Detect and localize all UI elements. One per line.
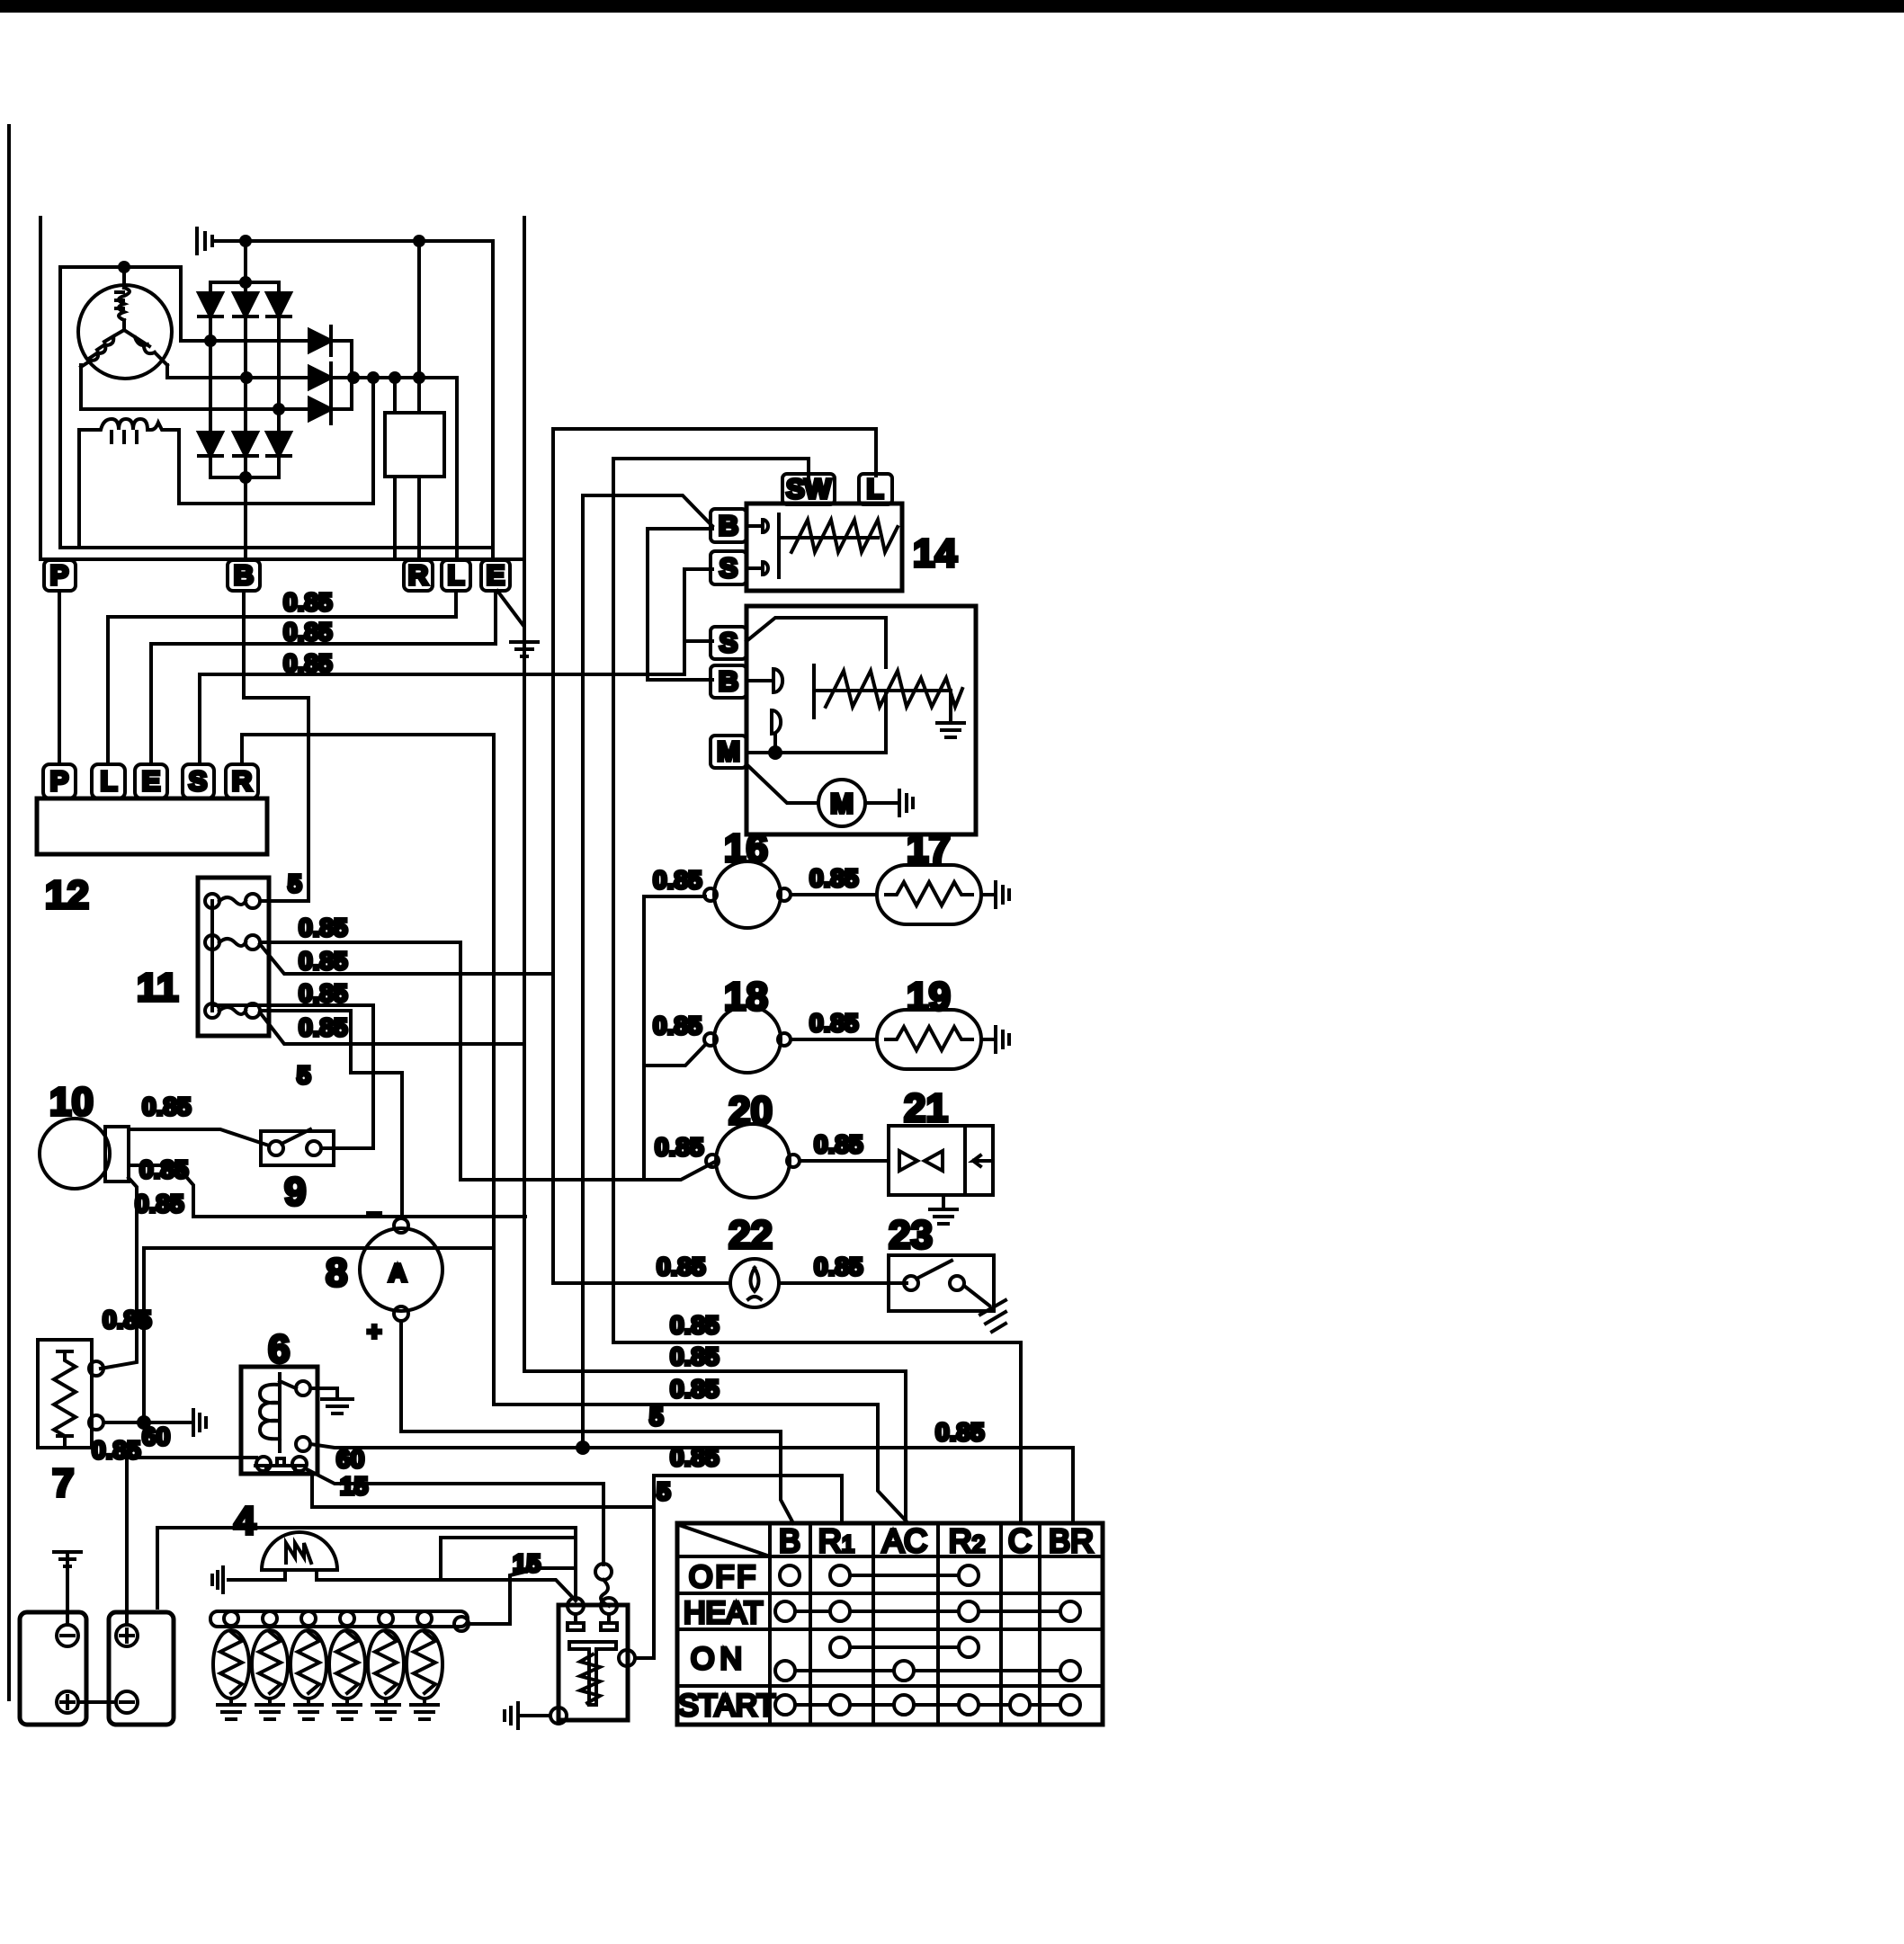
lower diode bus bbox=[210, 472, 279, 477]
wire 18 to 19 bbox=[791, 1038, 877, 1041]
node dot stator top bbox=[118, 261, 130, 273]
wire ammeter plus to key switch B bbox=[401, 1321, 793, 1523]
switch 11 left bus bbox=[210, 901, 214, 1011]
wire 0.85 bus to switch 9 bbox=[213, 1005, 373, 1146]
component 7 box bbox=[38, 1340, 92, 1448]
svg-text:M: M bbox=[830, 788, 854, 819]
switch 11 row2 contacts bbox=[205, 935, 219, 950]
node dot trio junction a bbox=[347, 371, 360, 384]
wire 15 bus to key switch bbox=[157, 1528, 576, 1608]
node dot ground-regulator link bbox=[413, 235, 425, 247]
table header diagonal bbox=[679, 1525, 770, 1556]
wire 0.85 S of 12 to starter S bbox=[200, 641, 684, 764]
glow plug 2 bbox=[263, 1611, 277, 1626]
wire B output bbox=[244, 477, 247, 559]
gauge 18 bbox=[714, 1006, 781, 1073]
svg-text:0.85: 0.85 bbox=[299, 947, 348, 975]
7 contacts bbox=[89, 1361, 103, 1376]
switch 23 contacts bbox=[904, 1276, 918, 1290]
wire 16 to 17 bbox=[791, 893, 877, 896]
lamp 22 bbox=[730, 1259, 779, 1307]
svg-text:8: 8 bbox=[326, 1251, 347, 1295]
svg-text:+: + bbox=[367, 1317, 381, 1345]
svg-text:11: 11 bbox=[137, 966, 179, 1010]
terminal L of alternator bbox=[442, 560, 470, 591]
horn 10 bbox=[40, 1119, 110, 1189]
svg-text:17: 17 bbox=[907, 826, 951, 870]
battery 1 plus terminal bbox=[57, 1691, 78, 1713]
svg-text:B: B bbox=[234, 559, 254, 591]
svg-text:B: B bbox=[779, 1522, 800, 1559]
switch block 11 box bbox=[198, 878, 269, 1036]
key switch spring bbox=[580, 1654, 600, 1703]
svg-text:15: 15 bbox=[340, 1472, 368, 1500]
wire switch 9 to bus bbox=[321, 1146, 373, 1150]
svg-text:START: START bbox=[678, 1689, 775, 1723]
wire regulator out to R bbox=[395, 477, 419, 559]
svg-text:0.85: 0.85 bbox=[657, 1253, 706, 1280]
svg-text:0.85: 0.85 bbox=[655, 1133, 704, 1161]
relay 6 armature T bbox=[255, 1458, 306, 1473]
upper diode bus bbox=[210, 282, 279, 288]
svg-text:SW: SW bbox=[786, 473, 832, 504]
L terminal of 14 bbox=[859, 474, 892, 504]
wire to ground bbox=[518, 1714, 550, 1717]
ground (E terminal) bbox=[511, 642, 538, 656]
wire chain to 16 bbox=[644, 895, 705, 898]
pin L of connector 12 bbox=[92, 764, 125, 798]
svg-text:0.85: 0.85 bbox=[283, 618, 333, 646]
ammeter 8 bbox=[360, 1228, 442, 1311]
node dot trio junction c bbox=[389, 371, 401, 384]
wire key to R1 column bbox=[654, 1476, 842, 1523]
svg-text:9: 9 bbox=[284, 1170, 306, 1214]
B terminal of 15 bbox=[711, 665, 746, 698]
svg-text:P: P bbox=[50, 559, 69, 591]
battery 2 plus terminal bbox=[116, 1625, 138, 1646]
node dot upper bus bbox=[239, 276, 252, 289]
wire ground bus y=268 bbox=[214, 239, 493, 243]
diode D5 bbox=[244, 378, 247, 477]
key switch ground contact bbox=[550, 1708, 567, 1724]
svg-text:0.85: 0.85 bbox=[809, 1009, 859, 1037]
svg-text:20: 20 bbox=[729, 1089, 773, 1133]
wire mid node bus bbox=[331, 376, 457, 379]
pin E of connector 12 bbox=[135, 764, 167, 798]
svg-text:0.85: 0.85 bbox=[103, 1306, 152, 1333]
node dot phase A / bridge column 1 bbox=[204, 334, 217, 347]
stator winding top phase bbox=[116, 267, 130, 330]
trunk wire L14 to lamp 22 bbox=[551, 429, 555, 1283]
svg-text:OFF: OFF bbox=[689, 1560, 758, 1594]
wire 0.85 E to pin E of 12 bbox=[151, 591, 496, 764]
battery 2 minus terminal bbox=[116, 1691, 138, 1713]
ammeter terminals bbox=[394, 1218, 408, 1233]
S terminal of 14 bbox=[711, 551, 746, 584]
diode D8 output (right) phase B bbox=[309, 367, 331, 388]
svg-text:S: S bbox=[189, 765, 208, 797]
svg-text:16: 16 bbox=[724, 826, 768, 870]
svg-text:0.85: 0.85 bbox=[299, 979, 348, 1007]
svg-text:E: E bbox=[142, 765, 161, 797]
key switch contact right bbox=[601, 1598, 617, 1614]
relay 21 box bbox=[889, 1126, 993, 1195]
svg-text:A: A bbox=[389, 1259, 407, 1287]
wire 0.85 horn to trunk bbox=[129, 1165, 525, 1217]
switch 9 box bbox=[261, 1131, 334, 1165]
ground (relay 6) bbox=[322, 1399, 353, 1413]
resistor 19 bbox=[877, 1010, 981, 1069]
svg-text:5: 5 bbox=[288, 869, 302, 897]
field winding inductor bbox=[79, 419, 179, 430]
svg-text:4: 4 bbox=[234, 1499, 256, 1543]
ground (19) bbox=[996, 1027, 1009, 1052]
wire 6 to ground bbox=[310, 1388, 337, 1399]
starter 15 lower pad bbox=[772, 710, 781, 748]
wire stator left edge bbox=[58, 267, 62, 548]
svg-text:0.85: 0.85 bbox=[670, 1342, 720, 1370]
node dot trio junction b bbox=[367, 371, 380, 384]
key switch armature T bbox=[569, 1642, 616, 1705]
node dot trio junction d bbox=[413, 371, 425, 384]
starter 15 B pad bbox=[746, 669, 782, 692]
relay 14 spring bbox=[791, 520, 898, 552]
wire 23 to ground bbox=[964, 1286, 989, 1306]
ignition switch table outer bbox=[677, 1523, 1103, 1725]
svg-text:0.85: 0.85 bbox=[142, 1092, 192, 1120]
svg-text:60: 60 bbox=[142, 1422, 170, 1450]
node dot phase B / bridge column 2 bbox=[240, 371, 253, 384]
page top rule bbox=[0, 0, 1904, 13]
starter motor M bbox=[746, 764, 818, 803]
battery 1 minus terminal bbox=[57, 1625, 78, 1646]
table row lines bbox=[677, 1556, 1103, 1686]
svg-text:0.85: 0.85 bbox=[814, 1253, 863, 1280]
wire regulator input b bbox=[417, 241, 421, 413]
wire key junction to 5 wire bbox=[312, 1474, 654, 1658]
ground (23 hatched) bbox=[980, 1300, 1006, 1332]
terminal P of alternator bbox=[44, 560, 76, 591]
svg-text:L: L bbox=[101, 765, 118, 797]
wire inner bottom edge bbox=[60, 546, 493, 549]
svg-text:60: 60 bbox=[336, 1445, 364, 1473]
terminal B of alternator bbox=[228, 560, 260, 591]
wire 5 row1 to B wire bbox=[260, 899, 308, 903]
trunk wire 60 to B14 bbox=[581, 495, 585, 1448]
wire sender right to key area bbox=[317, 1538, 576, 1601]
terminal R of alternator bbox=[404, 560, 433, 591]
wire 0.85 row2b to lamp trunk bbox=[260, 944, 553, 974]
glow plug bus bbox=[210, 1611, 468, 1627]
wire regulator input a bbox=[393, 378, 397, 413]
wire 0.85 7 bottom to trunk bbox=[103, 1248, 494, 1422]
wire L wire to relay 14 bbox=[553, 429, 876, 476]
glow plug 3 bbox=[301, 1611, 316, 1626]
glow plug 6 bbox=[417, 1611, 432, 1626]
relay 6 coil bbox=[260, 1374, 296, 1451]
ground (21) bbox=[930, 1209, 957, 1224]
connector 12 body bbox=[37, 798, 267, 854]
wire 17 to ground bbox=[981, 893, 996, 896]
wire phase C (bottom) bbox=[81, 365, 309, 409]
svg-text:P: P bbox=[50, 765, 69, 797]
wire ground dot to diode bus bbox=[244, 241, 247, 282]
relay 6 box bbox=[241, 1367, 317, 1474]
ground (motor) bbox=[899, 790, 913, 816]
wire D7 to mid node bbox=[331, 341, 352, 378]
wire motor to ground bbox=[865, 801, 899, 805]
wire 0.85 row2 to gauges bbox=[260, 942, 713, 1180]
wire 0.85 L to pin L of 12 bbox=[108, 591, 456, 764]
svg-text:R: R bbox=[408, 559, 428, 591]
diode D4 bbox=[209, 341, 212, 477]
svg-text:0.85: 0.85 bbox=[670, 1375, 720, 1403]
wire 0.85 to AC diagonal bbox=[494, 1404, 906, 1520]
svg-text:0.85: 0.85 bbox=[653, 1012, 702, 1039]
wire S14 to S15 tie bbox=[684, 569, 712, 641]
wire bus to key switch bbox=[469, 1568, 576, 1624]
switch 11 row1 contacts bbox=[205, 894, 219, 908]
table column lines bbox=[770, 1523, 1040, 1725]
switch 23 box bbox=[889, 1255, 994, 1311]
svg-text:0.85: 0.85 bbox=[670, 1443, 720, 1471]
wire 21 to ground bbox=[942, 1195, 945, 1208]
pin P of connector 12 bbox=[43, 764, 76, 798]
wire field to regulator node bbox=[371, 378, 375, 504]
glow plug 5 bbox=[379, 1611, 393, 1626]
node dot 7 ground bbox=[137, 1415, 151, 1430]
svg-text:21: 21 bbox=[904, 1086, 948, 1130]
starter 15 spring ground bbox=[937, 691, 964, 737]
wire B14 to B15 tie bbox=[648, 529, 712, 680]
wire lamp to 23 bbox=[779, 1281, 907, 1285]
SW terminal of 14 bbox=[782, 474, 835, 504]
wire R pin of 12 bbox=[242, 735, 494, 1404]
row ON upper bbox=[830, 1637, 850, 1657]
svg-text:22: 22 bbox=[729, 1213, 773, 1257]
svg-text:AC: AC bbox=[882, 1522, 927, 1559]
sender 4 dome bbox=[262, 1532, 337, 1570]
svg-text:C: C bbox=[1008, 1522, 1032, 1559]
S terminal of 15 bbox=[711, 627, 746, 659]
node dot M bbox=[768, 745, 782, 760]
ground (component 7) bbox=[193, 1410, 206, 1435]
svg-text:18: 18 bbox=[724, 975, 768, 1019]
svg-text:R: R bbox=[232, 765, 252, 797]
wire 60 battery to relay 6 bbox=[130, 1456, 256, 1459]
wire squiggle from 15 bbox=[595, 1564, 612, 1580]
relay 14 internal pads bbox=[746, 520, 768, 575]
rotor field box bbox=[79, 430, 373, 548]
glow plug bus end contact bbox=[454, 1617, 469, 1631]
gauge 20 bbox=[716, 1124, 790, 1198]
svg-text:S: S bbox=[720, 627, 738, 658]
pin S of connector 12 bbox=[183, 764, 214, 798]
wire 20 to 21 bbox=[800, 1159, 889, 1163]
sender 4 zigzag bbox=[286, 1543, 311, 1563]
battery 2 bbox=[109, 1612, 174, 1725]
key switch box bbox=[559, 1605, 628, 1720]
svg-text:M: M bbox=[717, 736, 740, 767]
svg-text:10: 10 bbox=[49, 1080, 94, 1124]
diode D3 bbox=[277, 282, 281, 409]
pin R of connector 12 bbox=[226, 764, 258, 798]
relay 6 contact bottom-left bbox=[256, 1457, 271, 1471]
gauge chain vertical bbox=[642, 896, 646, 1180]
stator winding lower-right phase bbox=[124, 330, 167, 365]
svg-text:5: 5 bbox=[297, 1061, 311, 1089]
svg-text:5: 5 bbox=[649, 1403, 664, 1431]
svg-text:S: S bbox=[720, 552, 738, 584]
terminal E of alternator bbox=[481, 560, 510, 591]
wire chain to 18 bbox=[644, 1044, 706, 1066]
svg-text:6: 6 bbox=[268, 1327, 290, 1371]
wire 0.85 horn to switch 9 bbox=[129, 1129, 269, 1146]
wire battery 2 to 60 feed bbox=[127, 1458, 130, 1625]
resistor inside 7 bbox=[54, 1351, 76, 1445]
starter 15 box bbox=[746, 606, 976, 834]
svg-text:0.85: 0.85 bbox=[283, 649, 333, 677]
svg-text:7: 7 bbox=[52, 1461, 74, 1505]
switch 9 contacts bbox=[269, 1141, 283, 1155]
wire SW wire to relay 14 bbox=[613, 459, 809, 476]
stator winding lower-left phase bbox=[81, 330, 124, 367]
starter 15 S path bbox=[746, 618, 886, 667]
node dot ground-diode link bbox=[239, 235, 252, 247]
wire phase B (middle) bbox=[167, 365, 309, 378]
diode D9 output (right) phase C bbox=[309, 398, 331, 420]
wire 0.85 to AC column bbox=[524, 1371, 906, 1523]
wire L feed bbox=[455, 378, 459, 559]
ground (sender 4) bbox=[212, 1567, 223, 1592]
relay 14 armature bbox=[779, 514, 878, 577]
starter 15 M path bbox=[746, 691, 886, 753]
M terminal of 15 bbox=[711, 736, 746, 768]
ground (key switch) bbox=[505, 1703, 518, 1728]
svg-text:0.85: 0.85 bbox=[92, 1436, 141, 1464]
svg-text:0.85: 0.85 bbox=[139, 1155, 189, 1183]
svg-text:0.85: 0.85 bbox=[809, 864, 859, 892]
wire B down from terminal bbox=[244, 591, 308, 901]
wire D9 up to mid node bbox=[331, 378, 352, 409]
switch 11 row3 contacts bbox=[205, 1003, 219, 1018]
node dot phase C / bridge column 3 bbox=[273, 403, 285, 415]
svg-text:5: 5 bbox=[657, 1477, 671, 1505]
wire 5 row3b to AC trunk bbox=[260, 1012, 524, 1044]
svg-text:B: B bbox=[719, 665, 738, 697]
wire E to ground bbox=[497, 591, 524, 640]
wire 0.85 row3 to ammeter minus bbox=[260, 1011, 402, 1218]
svg-text:ON: ON bbox=[691, 1642, 747, 1676]
svg-text:0.85: 0.85 bbox=[299, 1013, 348, 1041]
node dot lower bus bbox=[239, 471, 252, 484]
key switch junction right bbox=[619, 1650, 635, 1666]
glow plug 1 bbox=[224, 1611, 238, 1626]
svg-text:BR: BR bbox=[1049, 1522, 1094, 1559]
svg-text:19: 19 bbox=[907, 975, 951, 1019]
wire to ground bbox=[144, 1421, 193, 1424]
wire 15 relay 6 to key switch bbox=[307, 1469, 603, 1565]
wire phase A (top) bbox=[181, 267, 309, 341]
page left margin line bbox=[7, 126, 11, 1699]
svg-text:12: 12 bbox=[45, 873, 89, 917]
trunk wire SW14 to C column bbox=[612, 459, 615, 1342]
key switch contact left bbox=[568, 1598, 584, 1614]
resistor 17 bbox=[877, 865, 981, 924]
relay 21 internals bbox=[899, 1151, 943, 1171]
svg-text:14: 14 bbox=[913, 531, 957, 575]
relay 6 contact mid bbox=[296, 1437, 310, 1451]
wire 19 to ground bbox=[981, 1038, 996, 1041]
svg-text:−: − bbox=[367, 1200, 381, 1228]
wire 60 relay 6 to B of 14 bbox=[310, 1444, 1073, 1523]
diode D2 bbox=[244, 282, 247, 378]
regulator box bbox=[385, 413, 444, 477]
svg-text:B: B bbox=[719, 510, 738, 541]
svg-text:HEAT: HEAT bbox=[684, 1596, 763, 1630]
ground (17) bbox=[996, 882, 1009, 907]
diode D7 output (right) phase A bbox=[309, 330, 331, 352]
svg-text:0.85: 0.85 bbox=[935, 1418, 985, 1446]
svg-text:0.85: 0.85 bbox=[653, 866, 702, 894]
svg-text:0.85: 0.85 bbox=[135, 1190, 184, 1217]
svg-text:0.85: 0.85 bbox=[814, 1130, 863, 1158]
svg-text:0.85: 0.85 bbox=[299, 914, 348, 941]
relay 14 box bbox=[746, 504, 902, 591]
relay 6 contact upper bbox=[296, 1381, 310, 1396]
battery 1 bbox=[20, 1612, 86, 1725]
wire lamp to trunk bbox=[553, 1281, 730, 1285]
diode D1 bbox=[209, 282, 212, 341]
diode D6 bbox=[277, 409, 281, 477]
alternator outer box bbox=[40, 218, 524, 559]
wire battery link bbox=[78, 1700, 116, 1704]
gauge 16 bbox=[714, 861, 781, 928]
B terminal of 14 bbox=[711, 509, 746, 542]
svg-text:L: L bbox=[867, 473, 884, 504]
stator top edge bbox=[60, 265, 181, 269]
starter 15 spring bbox=[826, 671, 962, 707]
wire E drop from ground bus bbox=[491, 241, 495, 559]
wire 0.85 to C column bbox=[613, 1342, 1021, 1523]
ground (battery) bbox=[54, 1552, 81, 1566]
svg-text:0.85: 0.85 bbox=[283, 588, 333, 616]
starter 15 plunger bbox=[814, 665, 951, 718]
svg-text:L: L bbox=[448, 559, 465, 591]
wire P to connector 12 bbox=[58, 591, 61, 764]
wire 0.85 horn third bbox=[101, 1178, 137, 1369]
glow plug 4 bbox=[340, 1611, 354, 1626]
svg-text:23: 23 bbox=[889, 1213, 933, 1257]
svg-text:0.85: 0.85 bbox=[670, 1311, 720, 1339]
key switch pads bbox=[568, 1614, 617, 1630]
wire battery1 minus to ground bbox=[66, 1568, 69, 1625]
relay 6 contact bottom-right bbox=[292, 1457, 307, 1471]
node dot 60 junction bbox=[576, 1440, 590, 1455]
svg-text:E: E bbox=[487, 559, 505, 591]
wire sender left to ground bbox=[228, 1570, 285, 1580]
ground (alternator top) bbox=[197, 228, 212, 254]
trunk wire alternator edge to AC bbox=[523, 559, 526, 1371]
wire B14 feed bbox=[583, 495, 712, 526]
stator circle bbox=[78, 285, 172, 379]
